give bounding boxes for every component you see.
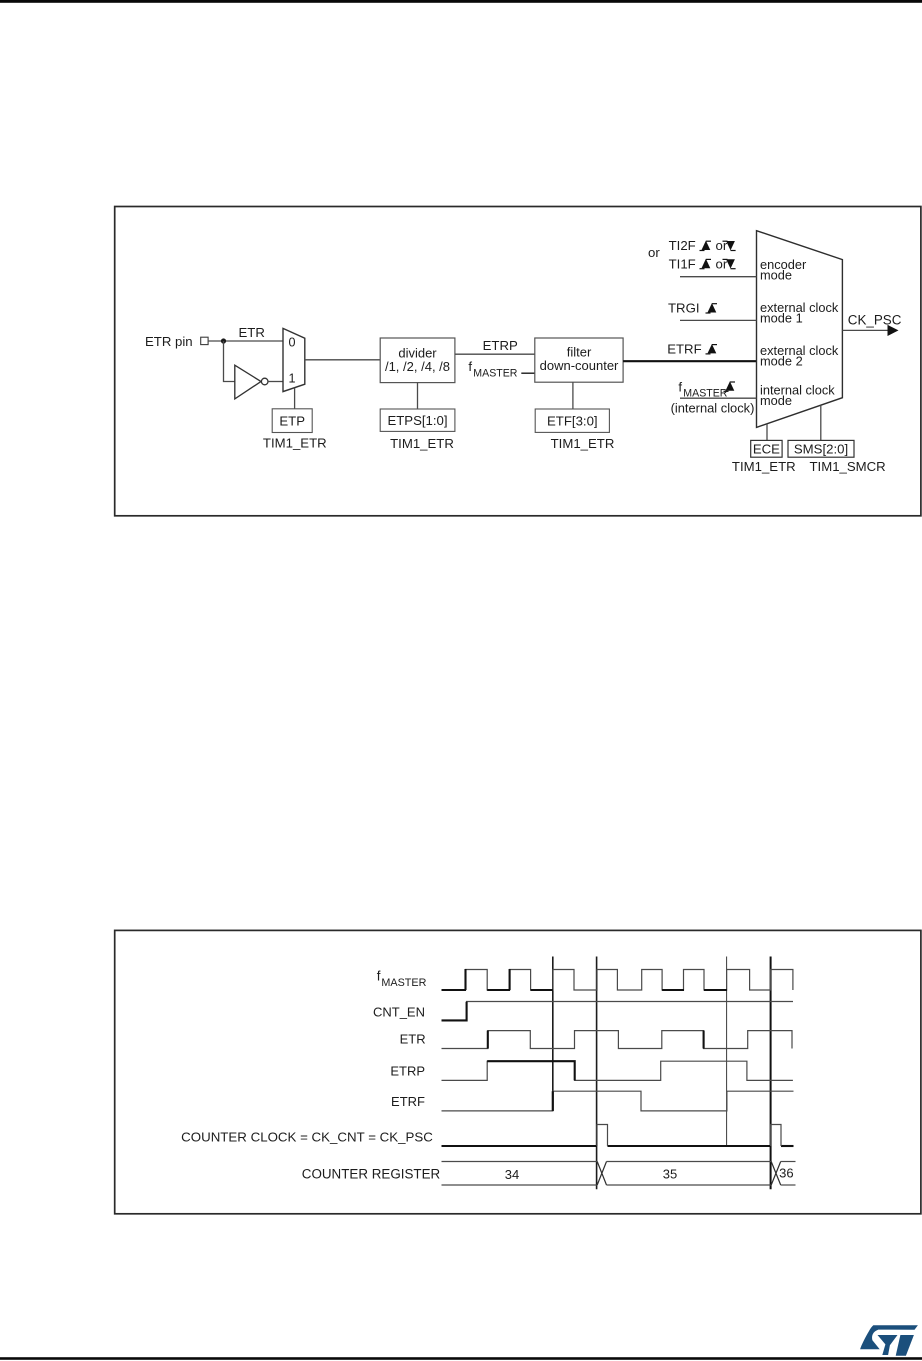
svg-text:down-counter: down-counter: [540, 358, 619, 373]
bottom page rule: [0, 1357, 922, 1360]
wire ETR pad to polarity mux input 0: [208, 340, 283, 342]
svg-text:TRGI: TRGI: [668, 301, 700, 316]
svg-text:ETP: ETP: [279, 413, 305, 428]
svg-text:TIM1_ETR: TIM1_ETR: [551, 436, 615, 451]
wire mux select to ECE: [766, 424, 768, 441]
polarity mux: [283, 328, 305, 391]
svg-text:ETF[3:0]: ETF[3:0]: [547, 414, 598, 429]
svg-text:SMS[2:0]: SMS[2:0]: [794, 442, 848, 457]
waveform COUNTER CLOCK low line thick: [442, 1145, 794, 1147]
svg-text:mode: mode: [760, 393, 792, 408]
falling edge symbol TI1F: [723, 259, 736, 269]
wire divider select to ETPS: [417, 383, 419, 409]
svg-text:0: 0: [289, 336, 296, 350]
top page rule: [0, 0, 922, 3]
counter register band value 34: [442, 1162, 598, 1186]
svg-text:CK_PSC: CK_PSC: [848, 313, 902, 328]
register bit ETP box: [272, 409, 312, 433]
svg-text:ETPS[1:0]: ETPS[1:0]: [387, 413, 447, 428]
svg-text:ETR: ETR: [239, 325, 265, 340]
svg-text:CNT_EN: CNT_EN: [373, 1004, 425, 1019]
register bit ECE box: [751, 440, 782, 457]
waveform ETRP thick segment: [487, 1061, 575, 1080]
waveform ETR thick edges: [488, 1031, 704, 1049]
svg-text:TIM1_ETR: TIM1_ETR: [263, 436, 327, 451]
wire inverter to polarity mux input 1: [268, 381, 283, 383]
rising edge symbol TRGI: [706, 303, 718, 313]
rising edge symbol fMASTER: [724, 381, 736, 391]
svg-text:ECE: ECE: [753, 442, 780, 457]
svg-text:1: 1: [289, 372, 296, 386]
svg-text:mode: mode: [760, 268, 792, 283]
register transition X 1: [597, 1162, 606, 1186]
waveform ETRP: [442, 1061, 793, 1080]
sample line 3: [726, 957, 728, 1147]
ETR input pad: [201, 337, 208, 344]
wire internal clock input to mux: [680, 397, 757, 399]
register transition X 2: [771, 1162, 781, 1186]
svg-text:34: 34: [505, 1167, 519, 1182]
svg-text:f: f: [678, 380, 682, 395]
counter register band value 35: [607, 1162, 772, 1186]
wire fMASTER stub into filter: [521, 372, 535, 374]
svg-text:f: f: [377, 968, 381, 983]
svg-text:f: f: [468, 359, 472, 374]
waveform ETRF thick rising edge: [552, 1091, 554, 1111]
register bits ETF[3:0] box: [535, 409, 609, 432]
svg-text:or: or: [648, 245, 660, 260]
wire ETRP divider to filter: [455, 353, 535, 355]
svg-text:mode 2: mode 2: [760, 354, 803, 369]
svg-text:36: 36: [779, 1165, 793, 1180]
inverter U1 triangle: [235, 365, 261, 399]
divider block: [380, 338, 455, 383]
rising edge symbol TI1F: [700, 259, 712, 269]
waveform ETR: [442, 1031, 793, 1049]
svg-text:(internal clock): (internal clock): [671, 401, 755, 416]
svg-text:/1, /2, /4, /8: /1, /2, /4, /8: [385, 359, 450, 374]
waveform CNT_EN thick start: [442, 1002, 467, 1021]
svg-text:35: 35: [663, 1167, 677, 1182]
waveform COUNTER CLOCK pulse 2: [771, 1125, 781, 1147]
register bits ETPS[1:0] box: [380, 409, 455, 431]
svg-text:TIM1_ETR: TIM1_ETR: [390, 436, 454, 451]
svg-text:COUNTER CLOCK = CK_CNT = CK_PS: COUNTER CLOCK = CK_CNT = CK_PSC: [181, 1129, 433, 1144]
inverter U1 bubble: [261, 378, 268, 385]
rising edge symbol TI2F: [700, 241, 712, 251]
waveform ETRF: [442, 1091, 794, 1111]
svg-text:ETRP: ETRP: [390, 1063, 425, 1078]
svg-text:ETRF: ETRF: [667, 342, 701, 357]
svg-text:filter: filter: [567, 344, 592, 359]
svg-text:divider: divider: [398, 345, 437, 360]
wire external clock mode 1 input to mux: [680, 319, 757, 321]
svg-text:or: or: [716, 238, 728, 253]
waveform fMASTER thick low segments: [442, 969, 728, 990]
svg-text:ETRF: ETRF: [391, 1094, 425, 1109]
waveform COUNTER CLOCK pulse 1: [597, 1125, 608, 1147]
svg-text:or: or: [716, 256, 728, 271]
svg-text:TI1F: TI1F: [669, 256, 696, 271]
wire polarity mux select to ETP: [294, 388, 296, 409]
sample line 1: [552, 957, 554, 1112]
ST logo: [860, 1325, 918, 1356]
junction dot on ETR wire: [221, 338, 226, 343]
CK_PSC arrowhead: [888, 325, 899, 336]
clock source mux: [757, 231, 843, 428]
svg-text:ETR: ETR: [400, 1032, 426, 1047]
rising edge symbol ETRF: [706, 344, 718, 354]
svg-text:MASTER: MASTER: [381, 977, 426, 989]
figure 1 frame: [115, 207, 921, 516]
svg-text:TIM1_ETR: TIM1_ETR: [732, 459, 796, 474]
svg-text:COUNTER REGISTER: COUNTER REGISTER: [302, 1167, 441, 1182]
sample line 4: [770, 957, 772, 1190]
svg-text:TIM1_SMCR: TIM1_SMCR: [809, 459, 885, 474]
sample line 2: [596, 957, 598, 1190]
wire mux select to SMS: [820, 405, 822, 440]
svg-text:ETR pin: ETR pin: [145, 334, 193, 349]
waveform fMASTER: [442, 970, 793, 991]
figure 2 frame: [115, 930, 921, 1213]
filter down-counter block: [535, 338, 623, 382]
register bits SMS[2:0] box: [788, 440, 854, 457]
svg-text:ETRP: ETRP: [483, 338, 518, 353]
svg-text:mode 1: mode 1: [760, 311, 803, 326]
falling edge symbol TI2F: [723, 241, 736, 251]
wire ETRF filter to clock mux (thick): [623, 360, 756, 362]
counter register band value 36: [781, 1162, 796, 1186]
svg-text:TI2F: TI2F: [669, 238, 696, 253]
wire CK_PSC output: [842, 329, 890, 331]
svg-text:MASTER: MASTER: [473, 367, 517, 379]
wire filter select to ETF: [572, 382, 574, 409]
wire encoder input to mux: [680, 276, 757, 278]
wire junction down to inverter: [224, 341, 235, 382]
wire polarity mux to divider: [305, 359, 380, 361]
waveform CNT_EN: [442, 1002, 794, 1021]
